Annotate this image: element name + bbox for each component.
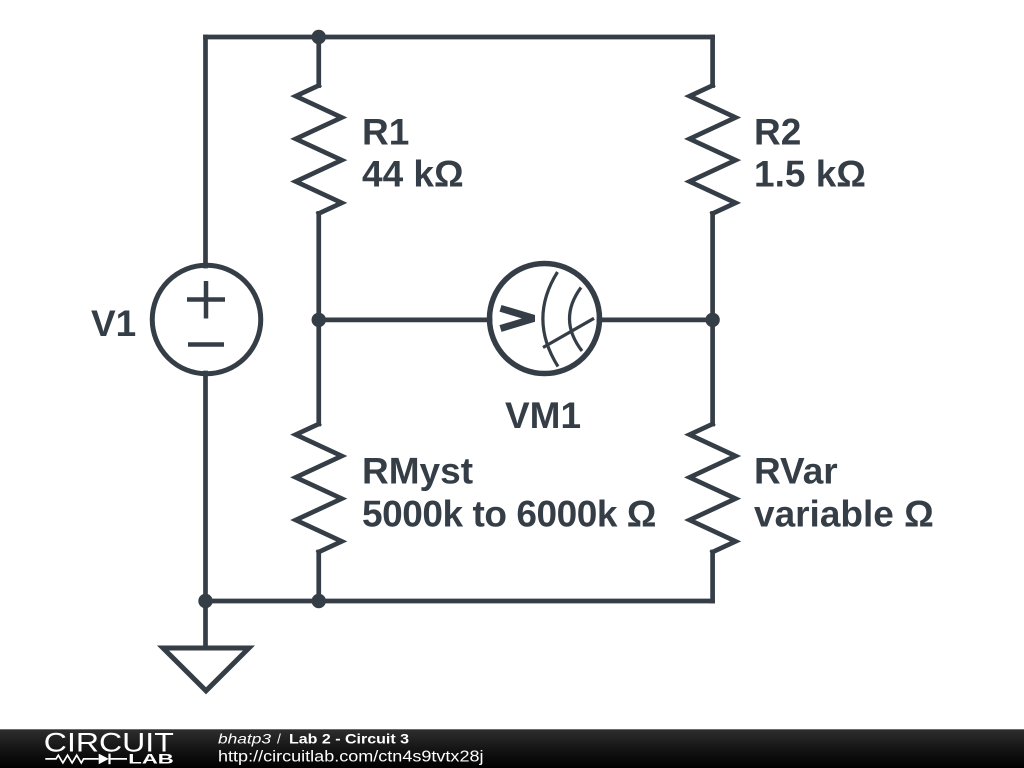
svg-text:LAB: LAB [128, 751, 174, 767]
svg-text:44 kΩ: 44 kΩ [362, 154, 464, 195]
svg-text:VM1: VM1 [505, 395, 581, 436]
svg-text:bhatp3: bhatp3 [218, 731, 271, 747]
svg-text:RMyst: RMyst [362, 451, 473, 492]
svg-text:/: / [277, 731, 281, 747]
svg-text:R2: R2 [754, 112, 801, 153]
svg-text:1.5 kΩ: 1.5 kΩ [754, 154, 866, 195]
svg-text:V1: V1 [91, 303, 136, 344]
svg-text:5000k to 6000k Ω: 5000k to 6000k Ω [362, 494, 656, 535]
svg-text:variable Ω: variable Ω [754, 494, 934, 535]
svg-text:http://circuitlab.com/ctn4s9tv: http://circuitlab.com/ctn4s9tvtx28j [218, 749, 484, 766]
svg-text:RVar: RVar [754, 451, 838, 492]
svg-text:R1: R1 [362, 112, 409, 153]
svg-text:Lab 2 - Circuit 3: Lab 2 - Circuit 3 [289, 731, 409, 747]
